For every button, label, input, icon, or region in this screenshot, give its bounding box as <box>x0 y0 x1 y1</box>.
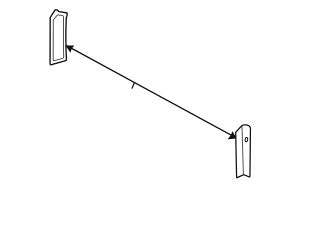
part: left channel inner lip outline <box>53 15 64 61</box>
wire: double-headed leader line <box>66 46 235 138</box>
hole in right bracket <box>245 137 248 142</box>
part: right angle bracket outline <box>236 125 251 178</box>
arrowhead left <box>66 46 74 52</box>
part: left channel outer outline <box>50 10 67 65</box>
fold line of right bracket <box>242 126 243 174</box>
tick on leader line <box>132 82 135 89</box>
arrowhead right <box>228 132 236 139</box>
